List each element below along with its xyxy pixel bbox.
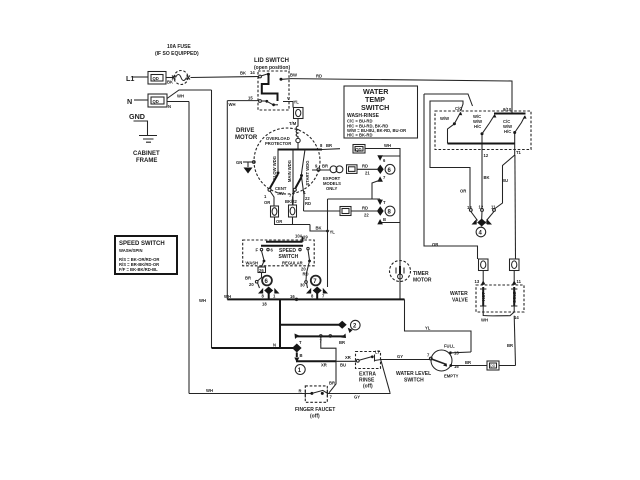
hot coil <box>482 287 484 306</box>
svg-text:7: 7 <box>330 395 333 400</box>
svg-text:9/10: 9/10 <box>503 107 512 112</box>
svg-text:6: 6 <box>388 168 392 174</box>
svg-text:T/M: T/M <box>289 121 297 126</box>
svg-text:OR: OR <box>432 242 438 247</box>
9/10 bus <box>494 113 526 115</box>
svg-text:T1: T1 <box>516 150 522 155</box>
connector QD lid to motor <box>289 108 303 150</box>
svg-text:H/C: H/C <box>474 124 481 129</box>
motor internal bus <box>278 149 323 151</box>
svg-text:20: 20 <box>249 282 254 287</box>
wire WH bus from lid switch <box>226 101 228 300</box>
svg-text:HOT: HOT <box>481 292 486 301</box>
connector 4 <box>467 205 496 237</box>
connector QD cold valve <box>510 259 520 271</box>
svg-text:BK: BK <box>316 226 322 231</box>
svg-text:RD: RD <box>316 74 322 79</box>
overload protector coil <box>296 119 298 139</box>
wire W/W to terminal 13 <box>430 101 470 209</box>
contact H/C <box>514 133 516 144</box>
wire finger faucet bypass <box>381 360 390 393</box>
svg-text:4: 4 <box>479 231 483 237</box>
drive motor M1 <box>235 128 377 211</box>
svg-text:V: V <box>287 96 290 101</box>
cold coil <box>513 287 515 306</box>
svg-text:BR: BR <box>339 340 345 345</box>
svg-text:FULL: FULL <box>444 344 455 349</box>
connector 6 left <box>245 261 280 307</box>
svg-text:BU: BU <box>340 363 346 368</box>
wire WH top right bus <box>322 143 400 299</box>
svg-text:6: 6 <box>265 279 269 285</box>
svg-text:F/F = BK-BK/RD-BL: F/F = BK-BK/RD-BL <box>119 267 158 272</box>
svg-text:START WDG: START WDG <box>305 160 310 185</box>
svg-text:QD: QD <box>153 99 159 104</box>
svg-text:N: N <box>127 97 132 106</box>
wire BK to fuse <box>166 77 173 79</box>
svg-text:GN: GN <box>236 160 242 165</box>
wire RD 22 to connector 8 <box>304 210 378 212</box>
node N <box>127 90 212 109</box>
svg-text:T: T <box>383 200 386 205</box>
svg-text:1: 1 <box>298 368 302 374</box>
wire WH left bus <box>188 102 190 394</box>
svg-text:YL: YL <box>330 230 336 235</box>
start winding wire RD 22 <box>302 177 305 211</box>
svg-text:WATER: WATER <box>450 291 468 297</box>
svg-text:BK: BK <box>167 80 173 85</box>
fuse F1 10A <box>155 44 258 85</box>
wire W/C to terminal 12 <box>482 153 490 209</box>
svg-text:11: 11 <box>517 279 522 284</box>
speed switch legend box <box>115 236 177 274</box>
extra rinse switch <box>345 350 381 390</box>
svg-text:N: N <box>273 343 276 348</box>
svg-text:YL: YL <box>425 326 431 331</box>
svg-text:10A FUSE: 10A FUSE <box>167 44 191 50</box>
svg-text:13: 13 <box>475 279 480 284</box>
water level switch <box>381 343 516 384</box>
svg-text:26: 26 <box>259 268 264 273</box>
svg-text:6: 6 <box>383 158 386 163</box>
svg-text:(off): (off) <box>310 414 320 420</box>
main bus WH <box>199 294 471 352</box>
wire outer OR to hot valve <box>424 94 478 259</box>
svg-text:H/C = BK-RD: H/C = BK-RD <box>347 133 372 138</box>
svg-text:16: 16 <box>290 294 295 299</box>
svg-text:8: 8 <box>311 294 314 299</box>
svg-text:BU: BU <box>502 178 508 183</box>
svg-text:B: B <box>383 217 386 222</box>
ground symbol cabinet frame <box>139 136 157 143</box>
svg-text:30: 30 <box>300 283 305 288</box>
node GND <box>129 112 160 164</box>
svg-text:OR: OR <box>276 219 282 224</box>
svg-text:BK: BK <box>240 71 246 76</box>
svg-text:(off): (off) <box>363 384 373 390</box>
svg-text:B: B <box>300 353 303 358</box>
water temp switch contacts dashed box <box>435 106 531 153</box>
wire WH bottom <box>189 388 390 400</box>
svg-text:WH: WH <box>229 102 236 107</box>
wire RD top line <box>291 79 512 114</box>
svg-text:COLD: COLD <box>512 291 517 303</box>
svg-text:MOTOR: MOTOR <box>413 278 432 284</box>
svg-text:FINGER FAUCET: FINGER FAUCET <box>295 407 335 413</box>
svg-text:QD: QD <box>355 147 361 152</box>
svg-text:(IF SO EQUIPPED): (IF SO EQUIPPED) <box>155 51 199 57</box>
svg-text:T: T <box>299 340 302 345</box>
connector 8 right <box>304 199 401 224</box>
svg-text:R: R <box>299 389 302 394</box>
svg-text:GY: GY <box>397 354 403 359</box>
svg-text:XR: XR <box>321 363 327 368</box>
svg-text:15: 15 <box>248 96 253 101</box>
svg-text:BR: BR <box>507 343 513 348</box>
svg-text:(open position): (open position) <box>254 65 290 71</box>
svg-text:RD: RD <box>305 201 311 206</box>
timer contact T-7 <box>295 334 347 346</box>
wire bold vertical to T B <box>279 299 281 348</box>
svg-text:RD: RD <box>303 272 309 277</box>
wire N to WH bus <box>167 101 189 103</box>
svg-text:7: 7 <box>427 353 430 358</box>
svg-text:LID SWITCH: LID SWITCH <box>254 58 289 64</box>
svg-text:BW: BW <box>290 73 297 78</box>
svg-text:W/W: W/W <box>440 116 449 121</box>
svg-text:WASH/SPIN: WASH/SPIN <box>119 248 143 253</box>
svg-text:GND: GND <box>129 112 145 121</box>
wire OR motor leads to speed switch <box>275 217 336 235</box>
svg-text:L1: L1 <box>126 74 134 83</box>
svg-text:BR: BR <box>329 381 335 386</box>
svg-text:18: 18 <box>262 302 267 307</box>
svg-text:22: 22 <box>364 213 369 218</box>
svg-text:8: 8 <box>262 294 265 299</box>
connector 7 left <box>300 261 328 299</box>
svg-text:WH: WH <box>177 94 184 99</box>
wire timer 7 to finger faucet <box>321 337 336 393</box>
svg-text:CABINET: CABINET <box>133 151 160 157</box>
svg-text:BK: BK <box>484 175 490 180</box>
lid switch S1 <box>227 58 299 110</box>
svg-text:BR: BR <box>326 143 332 148</box>
svg-text:SWITCH: SWITCH <box>361 103 389 112</box>
svg-text:LT: LT <box>375 350 380 355</box>
svg-text:BR: BR <box>465 360 471 365</box>
svg-text:OR: OR <box>460 189 466 194</box>
svg-text:FRAME: FRAME <box>136 158 157 164</box>
wire H/C branches <box>495 144 522 260</box>
node L1 <box>126 72 173 85</box>
svg-text:RD: RD <box>362 206 368 211</box>
svg-text:16: 16 <box>454 364 459 369</box>
svg-text:PROTECTOR: PROTECTOR <box>265 141 291 146</box>
svg-text:12: 12 <box>484 153 489 158</box>
wire vertical to connector 7 <box>327 199 329 287</box>
svg-text:8: 8 <box>388 210 392 216</box>
svg-text:VALVE: VALVE <box>452 298 469 304</box>
svg-text:WASH: WASH <box>246 261 259 266</box>
svg-text:MOTOR: MOTOR <box>235 135 258 141</box>
svg-text:SWITCH: SWITCH <box>404 378 424 384</box>
svg-text:WH: WH <box>206 388 213 393</box>
svg-text:7: 7 <box>289 193 292 198</box>
wire WH into lid switch <box>227 100 258 102</box>
connector QD hot valve <box>479 259 489 271</box>
wire N diagonal to bus <box>167 90 212 99</box>
wire fuse to lid switch BK <box>191 77 259 78</box>
connector 6 right <box>372 155 400 199</box>
svg-text:BK/22: BK/22 <box>285 199 298 204</box>
timer motor <box>390 261 432 284</box>
svg-text:7: 7 <box>322 294 325 299</box>
svg-text:SPEED SWITCH: SPEED SWITCH <box>119 241 165 247</box>
connector QD motor lead 7 <box>289 205 297 217</box>
svg-text:WH: WH <box>481 318 488 323</box>
svg-text:QD: QD <box>153 76 159 81</box>
svg-text:F: F <box>256 248 259 253</box>
svg-text:BR: BR <box>245 276 251 281</box>
finger faucet switch <box>295 386 335 420</box>
svg-text:1: 1 <box>273 294 276 299</box>
common bold line <box>448 143 515 145</box>
svg-text:WATER LEVEL: WATER LEVEL <box>396 371 431 377</box>
connector QD motor lead 1 <box>271 206 279 217</box>
svg-text:21: 21 <box>365 171 370 176</box>
svg-text:7: 7 <box>313 279 317 285</box>
svg-text:WH: WH <box>199 298 206 303</box>
svg-text:REGULAR: REGULAR <box>282 261 303 266</box>
svg-text:8: 8 <box>320 143 323 148</box>
wire XR to extra rinse <box>296 361 356 367</box>
svg-text:6: 6 <box>271 248 274 253</box>
svg-text:GY: GY <box>354 395 360 400</box>
svg-text:H/C: H/C <box>504 129 511 134</box>
water valve <box>450 271 524 366</box>
connector QD L1 <box>148 72 166 85</box>
svg-text:XR: XR <box>345 355 351 360</box>
svg-text:QD: QD <box>490 364 496 368</box>
svg-text:TIMER: TIMER <box>413 271 429 277</box>
svg-text:7: 7 <box>383 175 386 180</box>
svg-text:WH: WH <box>224 294 231 299</box>
svg-text:BR: BR <box>322 164 328 169</box>
svg-text:WH: WH <box>384 143 391 148</box>
svg-text:YL: YL <box>294 100 300 105</box>
svg-text:SWITCH: SWITCH <box>279 254 299 260</box>
wire L1 lead <box>133 76 148 78</box>
svg-text:ONLY: ONLY <box>326 186 337 191</box>
wire N bus <box>211 90 213 348</box>
speed switch S2 <box>243 234 315 266</box>
connector 2 <box>280 320 360 333</box>
svg-text:1: 1 <box>264 194 267 199</box>
svg-text:19: 19 <box>303 235 308 240</box>
svg-text:OR: OR <box>264 200 270 205</box>
connector QD N <box>148 94 167 107</box>
svg-text:1: 1 <box>304 190 307 195</box>
svg-text:SW: SW <box>277 191 284 196</box>
water temp switch legend box <box>344 86 418 138</box>
svg-text:EMPTY: EMPTY <box>444 374 459 379</box>
svg-text:N: N <box>168 104 171 109</box>
node N junction <box>212 343 306 375</box>
svg-text:RD: RD <box>362 164 368 169</box>
svg-text:MAIN WDG: MAIN WDG <box>287 160 292 182</box>
svg-text:2: 2 <box>353 324 357 330</box>
svg-text:DRIVE: DRIVE <box>236 128 254 134</box>
contact W/C <box>481 134 483 153</box>
